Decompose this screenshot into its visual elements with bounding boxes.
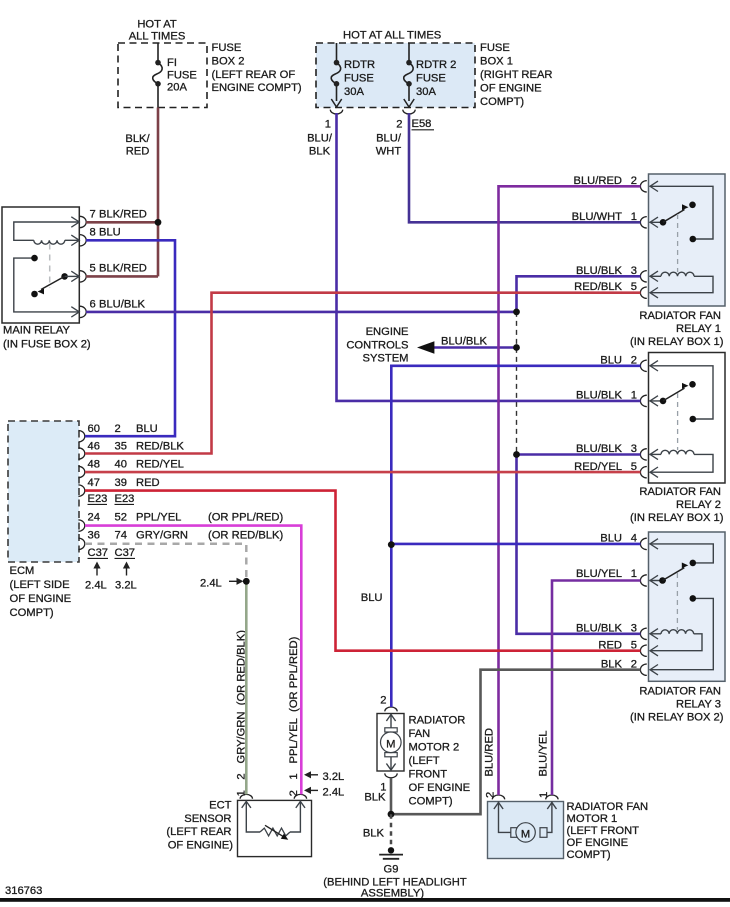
svg-text:1: 1 — [538, 792, 550, 798]
node junction dots BLU/BLK bus — [513, 309, 520, 316]
svg-text:ECM: ECM — [10, 565, 35, 577]
svg-text:(RIGHT REAR: (RIGHT REAR — [480, 69, 553, 81]
svg-text:RADIATOR FAN: RADIATOR FAN — [639, 310, 721, 322]
svg-text:RDTR 2: RDTR 2 — [416, 59, 456, 71]
svg-text:ENGINE COMPT): ENGINE COMPT) — [212, 82, 302, 94]
relay 1 pin 5 connector — [640, 287, 646, 298]
svg-text:BLK/: BLK/ — [125, 133, 150, 145]
ECM pin 24/52 PPL/YEL — [78, 520, 84, 531]
svg-text:C37: C37 — [88, 547, 109, 559]
svg-text:2: 2 — [396, 119, 402, 131]
svg-text:20A: 20A — [167, 82, 187, 94]
svg-text:OF ENGINE: OF ENGINE — [10, 593, 72, 605]
svg-text:BLK: BLK — [363, 827, 385, 839]
wire BLU/BLK fuse 1 to relay 2 pin 1 — [337, 113, 641, 401]
svg-text:BLU/: BLU/ — [376, 133, 402, 145]
svg-text:BLK: BLK — [364, 792, 386, 804]
svg-text:2: 2 — [288, 790, 300, 796]
relay 3 lower contact to pin 2 — [690, 595, 697, 602]
svg-text:ALL TIMES: ALL TIMES — [129, 31, 186, 43]
main relay pin 8 — [80, 235, 86, 246]
dashed bus link — [516, 312, 518, 455]
motor 1 symbol — [511, 828, 518, 838]
relay 1 coil pins 3-5 — [650, 275, 662, 277]
svg-text:PPL/YEL (OR PPL/RED): PPL/YEL (OR PPL/RED) — [288, 636, 300, 763]
relay 3 pin 5 connector — [640, 645, 646, 656]
svg-text:COMPT): COMPT) — [480, 96, 524, 108]
svg-text:SYSTEM: SYSTEM — [362, 353, 408, 365]
svg-text:RADIATOR: RADIATOR — [409, 715, 466, 727]
junction node GRY/GRN splice — [243, 578, 250, 585]
svg-text:46: 46 — [88, 441, 100, 453]
svg-text:74: 74 — [115, 529, 127, 541]
svg-text:HOT AT ALL TIMES: HOT AT ALL TIMES — [343, 30, 441, 42]
wire BLU relay 2 pin 2 to motor 2 and relay 3 pin 4 — [391, 366, 640, 707]
wire BLU/RED relay 1 pin 2 to motor 1 pin 2 — [499, 186, 641, 795]
relay 2 contact circuit pin 2 — [650, 366, 714, 419]
svg-text:RED: RED — [126, 146, 150, 158]
svg-text:M: M — [386, 739, 395, 751]
svg-text:FI: FI — [167, 57, 177, 69]
relay 3 contact circuit pin 4 — [650, 544, 714, 563]
radiator fan relay 2 box — [649, 353, 726, 484]
radiator fan motor 2 box — [377, 714, 404, 772]
svg-text:BLU: BLU — [361, 592, 383, 604]
svg-text:RDTR: RDTR — [344, 59, 375, 71]
svg-text:G9: G9 — [384, 863, 399, 875]
svg-text:FAN: FAN — [409, 728, 431, 740]
svg-text:SENSOR: SENSOR — [184, 813, 231, 825]
wire RED/BLK ECM 46 to relay 1 pin 5 — [85, 293, 641, 454]
svg-text:60: 60 — [88, 423, 100, 435]
relay 2 coil pins 3-5 — [650, 453, 662, 455]
wire BLK motor 2 pin 1 — [390, 778, 393, 814]
svg-text:39: 39 — [115, 477, 127, 489]
relay 2 dashed link — [677, 393, 679, 450]
relay 2 pin 5 connector — [640, 467, 646, 478]
svg-text:47: 47 — [88, 477, 100, 489]
svg-text:FRONT: FRONT — [409, 769, 448, 781]
svg-text:RED/YEL: RED/YEL — [136, 459, 184, 471]
fuse FI 20A — [157, 43, 159, 63]
motor 1 pin 1 connector — [546, 795, 558, 799]
svg-text:2: 2 — [380, 695, 386, 707]
connector pin 1 (fuse box 1) — [330, 110, 342, 114]
fuse RDTR 30A — [336, 43, 338, 63]
relay 2 pin 3 connector — [640, 449, 646, 460]
relay 3 pin 1 connector — [640, 575, 646, 586]
radiator fan motor 1 box — [488, 802, 564, 859]
bottom border bar — [0, 898, 730, 902]
wire BLK relay 3 pin 2 to ground junction — [391, 670, 641, 815]
svg-text:ASSEMBLY): ASSEMBLY) — [361, 887, 424, 899]
svg-text:FUSE: FUSE — [167, 69, 197, 81]
svg-text:BLK: BLK — [309, 146, 331, 158]
svg-text:7: 7 — [90, 209, 96, 221]
wire GRY/GRN to ECT pin 1 — [245, 581, 248, 794]
ECM box — [8, 421, 79, 562]
svg-text:36: 36 — [88, 529, 100, 541]
wire BLU/WHT fuse 2 to relay 1 pin 1 — [409, 113, 641, 222]
svg-text:(IN RELAY BOX 1): (IN RELAY BOX 1) — [630, 512, 724, 524]
svg-text:2.4L: 2.4L — [200, 577, 222, 589]
motor 2 symbol — [390, 714, 392, 729]
svg-text:RADIATOR FAN: RADIATOR FAN — [639, 486, 721, 498]
svg-text:8: 8 — [90, 227, 96, 239]
svg-text:1: 1 — [288, 773, 300, 779]
svg-text:BLK/RED: BLK/RED — [99, 209, 147, 221]
main relay pin 7 — [80, 216, 86, 227]
ECM pin 48/40 RED/YEL — [78, 466, 84, 477]
relay 2 pin 2 connector — [640, 360, 646, 371]
svg-text:M: M — [521, 828, 530, 840]
svg-text:BLU/BLK: BLU/BLK — [99, 298, 146, 310]
motor 1 pin 2 connector — [492, 795, 504, 799]
svg-text:40: 40 — [115, 459, 127, 471]
svg-text:3.2L: 3.2L — [115, 580, 137, 592]
main relay box — [2, 207, 79, 323]
svg-text:(OR RED/BLK): (OR RED/BLK) — [208, 529, 283, 541]
C37 variant arrow 3.2L — [126, 564, 128, 576]
ECM pin 60/2 BLU — [78, 431, 84, 442]
relay 3 dashed link — [676, 573, 678, 630]
main relay pin 6 — [80, 306, 86, 317]
svg-text:ECT: ECT — [209, 800, 232, 812]
svg-text:RED/BLK: RED/BLK — [136, 441, 184, 453]
junction node BLK/RED — [155, 219, 162, 226]
fuse RDTR 2 30A — [408, 43, 410, 63]
svg-text:RED: RED — [136, 477, 160, 489]
main relay switch — [14, 258, 80, 312]
wire BLU/YEL relay 3 pin 1 to motor 1 pin 1 — [552, 581, 641, 796]
svg-text:BLU/: BLU/ — [307, 133, 333, 145]
svg-text:OF ENGINE): OF ENGINE) — [168, 839, 234, 851]
svg-text:OF ENGINE: OF ENGINE — [480, 82, 542, 94]
svg-text:30A: 30A — [344, 86, 364, 98]
svg-text:RELAY 2: RELAY 2 — [676, 499, 721, 511]
C37 variant arrow 2.4L — [96, 564, 98, 576]
relay 2 switch arm pin 1 — [650, 400, 667, 402]
wire RED ECM 47 to relay 3 pin 5 — [85, 491, 641, 651]
svg-text:6: 6 — [90, 298, 96, 310]
svg-text:(IN RELAY BOX 1): (IN RELAY BOX 1) — [630, 336, 724, 348]
variant arrow 3.2L (ECT pin) — [307, 774, 319, 776]
svg-text:FUSE: FUSE — [480, 42, 510, 54]
motor 1 pin 2 inner lead — [499, 802, 511, 833]
relay 2 pin 1 connector — [640, 395, 646, 406]
svg-text:BLU/YEL: BLU/YEL — [538, 730, 550, 776]
wire BLK dashed to ground G9 — [390, 814, 393, 847]
svg-text:BLU: BLU — [99, 227, 121, 239]
radiator fan relay 3 box — [649, 532, 726, 681]
svg-text:35: 35 — [115, 441, 127, 453]
svg-text:BOX 2: BOX 2 — [212, 56, 245, 68]
wire BLU/BLK to relay 2 pin 3 — [517, 453, 641, 456]
wire BLU/BLK main relay pin 6 bus — [86, 311, 517, 314]
svg-text:(LEFT: (LEFT — [409, 755, 440, 767]
svg-text:2: 2 — [485, 792, 497, 798]
svg-text:FUSE: FUSE — [212, 42, 242, 54]
svg-text:COMPT): COMPT) — [567, 849, 611, 861]
svg-text:2.4L: 2.4L — [323, 786, 345, 798]
svg-text:GRY/GRN: GRY/GRN — [136, 529, 188, 541]
relay 1 dashed link — [677, 214, 679, 272]
svg-text:BLK/RED: BLK/RED — [99, 263, 147, 275]
svg-text:MOTOR 1: MOTOR 1 — [567, 813, 618, 825]
main relay coil-switch dashed link — [49, 244, 51, 289]
wire BLK/RED fuse box 2 to main relay — [157, 108, 160, 277]
svg-text:316763: 316763 — [5, 885, 42, 897]
relay 1 pin 3 connector — [640, 271, 646, 282]
svg-text:RADIATOR FAN: RADIATOR FAN — [567, 801, 649, 813]
svg-text:48: 48 — [88, 459, 100, 471]
svg-text:MAIN RELAY: MAIN RELAY — [3, 325, 70, 337]
svg-text:FUSE: FUSE — [416, 73, 446, 85]
ECT pin 1 connector — [240, 794, 252, 798]
svg-text:FUSE: FUSE — [344, 73, 374, 85]
svg-text:E23: E23 — [88, 493, 108, 505]
wire BLU/BLK to engine controls system — [434, 346, 517, 349]
wire BLU/BLK to relay 1 pin 3 — [517, 276, 641, 312]
relay 1 pin 1 connector — [640, 217, 646, 228]
ECT sensor box — [238, 800, 312, 856]
relay 3 pin 3 connector — [640, 628, 646, 639]
svg-text:1: 1 — [325, 119, 331, 131]
svg-text:PPL/YEL: PPL/YEL — [136, 511, 181, 523]
relay 1 switch arm pin 1 — [650, 221, 667, 223]
main relay coil circuit (pin7 to pin8) — [14, 222, 80, 240]
wire GRY/GRN ECM 36 (dashed section) — [85, 544, 246, 580]
svg-text:OF ENGINE: OF ENGINE — [409, 782, 471, 794]
svg-text:RADIATOR FAN: RADIATOR FAN — [639, 686, 721, 698]
ECM pin 46/35 RED/BLK — [78, 448, 84, 459]
svg-text:2.4L: 2.4L — [85, 580, 107, 592]
motor 1 pin 1 inner lead — [547, 802, 552, 833]
wire BLU/BLK relay 2 pin 3 to relay 3 pin 3 — [517, 455, 641, 634]
fuse box 2 (dashed enclosure) — [118, 43, 207, 108]
ECM pin 36/74 GRY/GRN — [78, 538, 84, 549]
svg-text:(IN FUSE BOX 2): (IN FUSE BOX 2) — [3, 339, 91, 351]
svg-text:MOTOR 2: MOTOR 2 — [409, 742, 460, 754]
motor 2 pin 2 connector — [385, 707, 397, 711]
svg-text:5: 5 — [90, 263, 96, 275]
svg-text:(IN RELAY BOX 2): (IN RELAY BOX 2) — [630, 712, 724, 724]
svg-text:BLU: BLU — [136, 423, 158, 435]
svg-text:(OR PPL/RED): (OR PPL/RED) — [208, 511, 283, 523]
svg-text:(LEFT FRONT: (LEFT FRONT — [567, 825, 640, 837]
ECT pin 2 inner lead — [290, 800, 300, 832]
relay 3 coil pins 3-5 — [650, 633, 662, 635]
ECM pin 47/39 RED — [78, 485, 84, 496]
svg-text:RELAY 1: RELAY 1 — [676, 323, 721, 335]
relay 3 pin 2 connector — [640, 664, 646, 675]
svg-text:WHT: WHT — [376, 146, 402, 158]
svg-text:30A: 30A — [416, 86, 436, 98]
svg-text:COMPT): COMPT) — [409, 796, 453, 808]
svg-text:RELAY 3: RELAY 3 — [676, 699, 721, 711]
svg-text:BLU/YEL: BLU/YEL — [576, 568, 622, 580]
wire RED/YEL ECM 48 to relay 2 pin 5 — [85, 471, 641, 474]
radiator fan relay 1 box — [649, 174, 726, 306]
junction node BLU — [388, 541, 395, 548]
ground G9 — [388, 847, 394, 853]
svg-text:ENGINE: ENGINE — [366, 326, 409, 338]
svg-text:C37: C37 — [115, 547, 136, 559]
ECT pin 2 connector — [294, 794, 306, 798]
relay 1 contact circuit pin 2 — [650, 186, 714, 239]
svg-text:COMPT): COMPT) — [10, 607, 54, 619]
svg-text:OF ENGINE: OF ENGINE — [567, 837, 629, 849]
svg-text:52: 52 — [115, 511, 127, 523]
svg-text:E58: E58 — [412, 118, 432, 130]
svg-text:1: 1 — [631, 568, 637, 580]
relay 3 switch arm pin 1 — [650, 580, 667, 582]
motor 2 pin 1 connector — [385, 773, 397, 777]
connector pin 2 / E58 (fuse box 1) — [403, 110, 415, 114]
svg-text:3.2L: 3.2L — [323, 771, 345, 783]
ECT pin 1 inner lead — [246, 800, 260, 832]
svg-text:BLU/RED: BLU/RED — [484, 728, 496, 777]
svg-text:E23: E23 — [115, 493, 135, 505]
variant arrow 2.4L (ECT pin) — [307, 789, 319, 791]
main relay pin 5 — [80, 271, 86, 282]
fuse box 1 (dashed enclosure, shaded) — [316, 43, 475, 108]
relay 3 pin 4 connector — [640, 538, 646, 549]
wire PPL/YEL ECM 24 to ECT pin 2 — [85, 526, 301, 795]
relay 1 pin 2 connector — [640, 181, 646, 192]
svg-text:2: 2 — [115, 423, 121, 435]
svg-text:(LEFT SIDE: (LEFT SIDE — [10, 579, 70, 591]
svg-text:24: 24 — [88, 511, 100, 523]
ECT thermistor element — [260, 828, 290, 836]
wire BLU main relay pin 8 to ECM pin 60 — [85, 240, 175, 436]
svg-text:BLU/BLK: BLU/BLK — [441, 335, 488, 347]
svg-text:HOT AT: HOT AT — [137, 19, 177, 31]
svg-text:(LEFT REAR OF: (LEFT REAR OF — [212, 69, 296, 81]
svg-text:BOX 1: BOX 1 — [480, 56, 513, 68]
svg-text:(LEFT REAR: (LEFT REAR — [166, 826, 231, 838]
variant arrow 2.4L (GRY/GRN splice) — [229, 580, 241, 582]
junction node BLK — [388, 811, 395, 818]
svg-text:CONTROLS: CONTROLS — [346, 339, 408, 351]
